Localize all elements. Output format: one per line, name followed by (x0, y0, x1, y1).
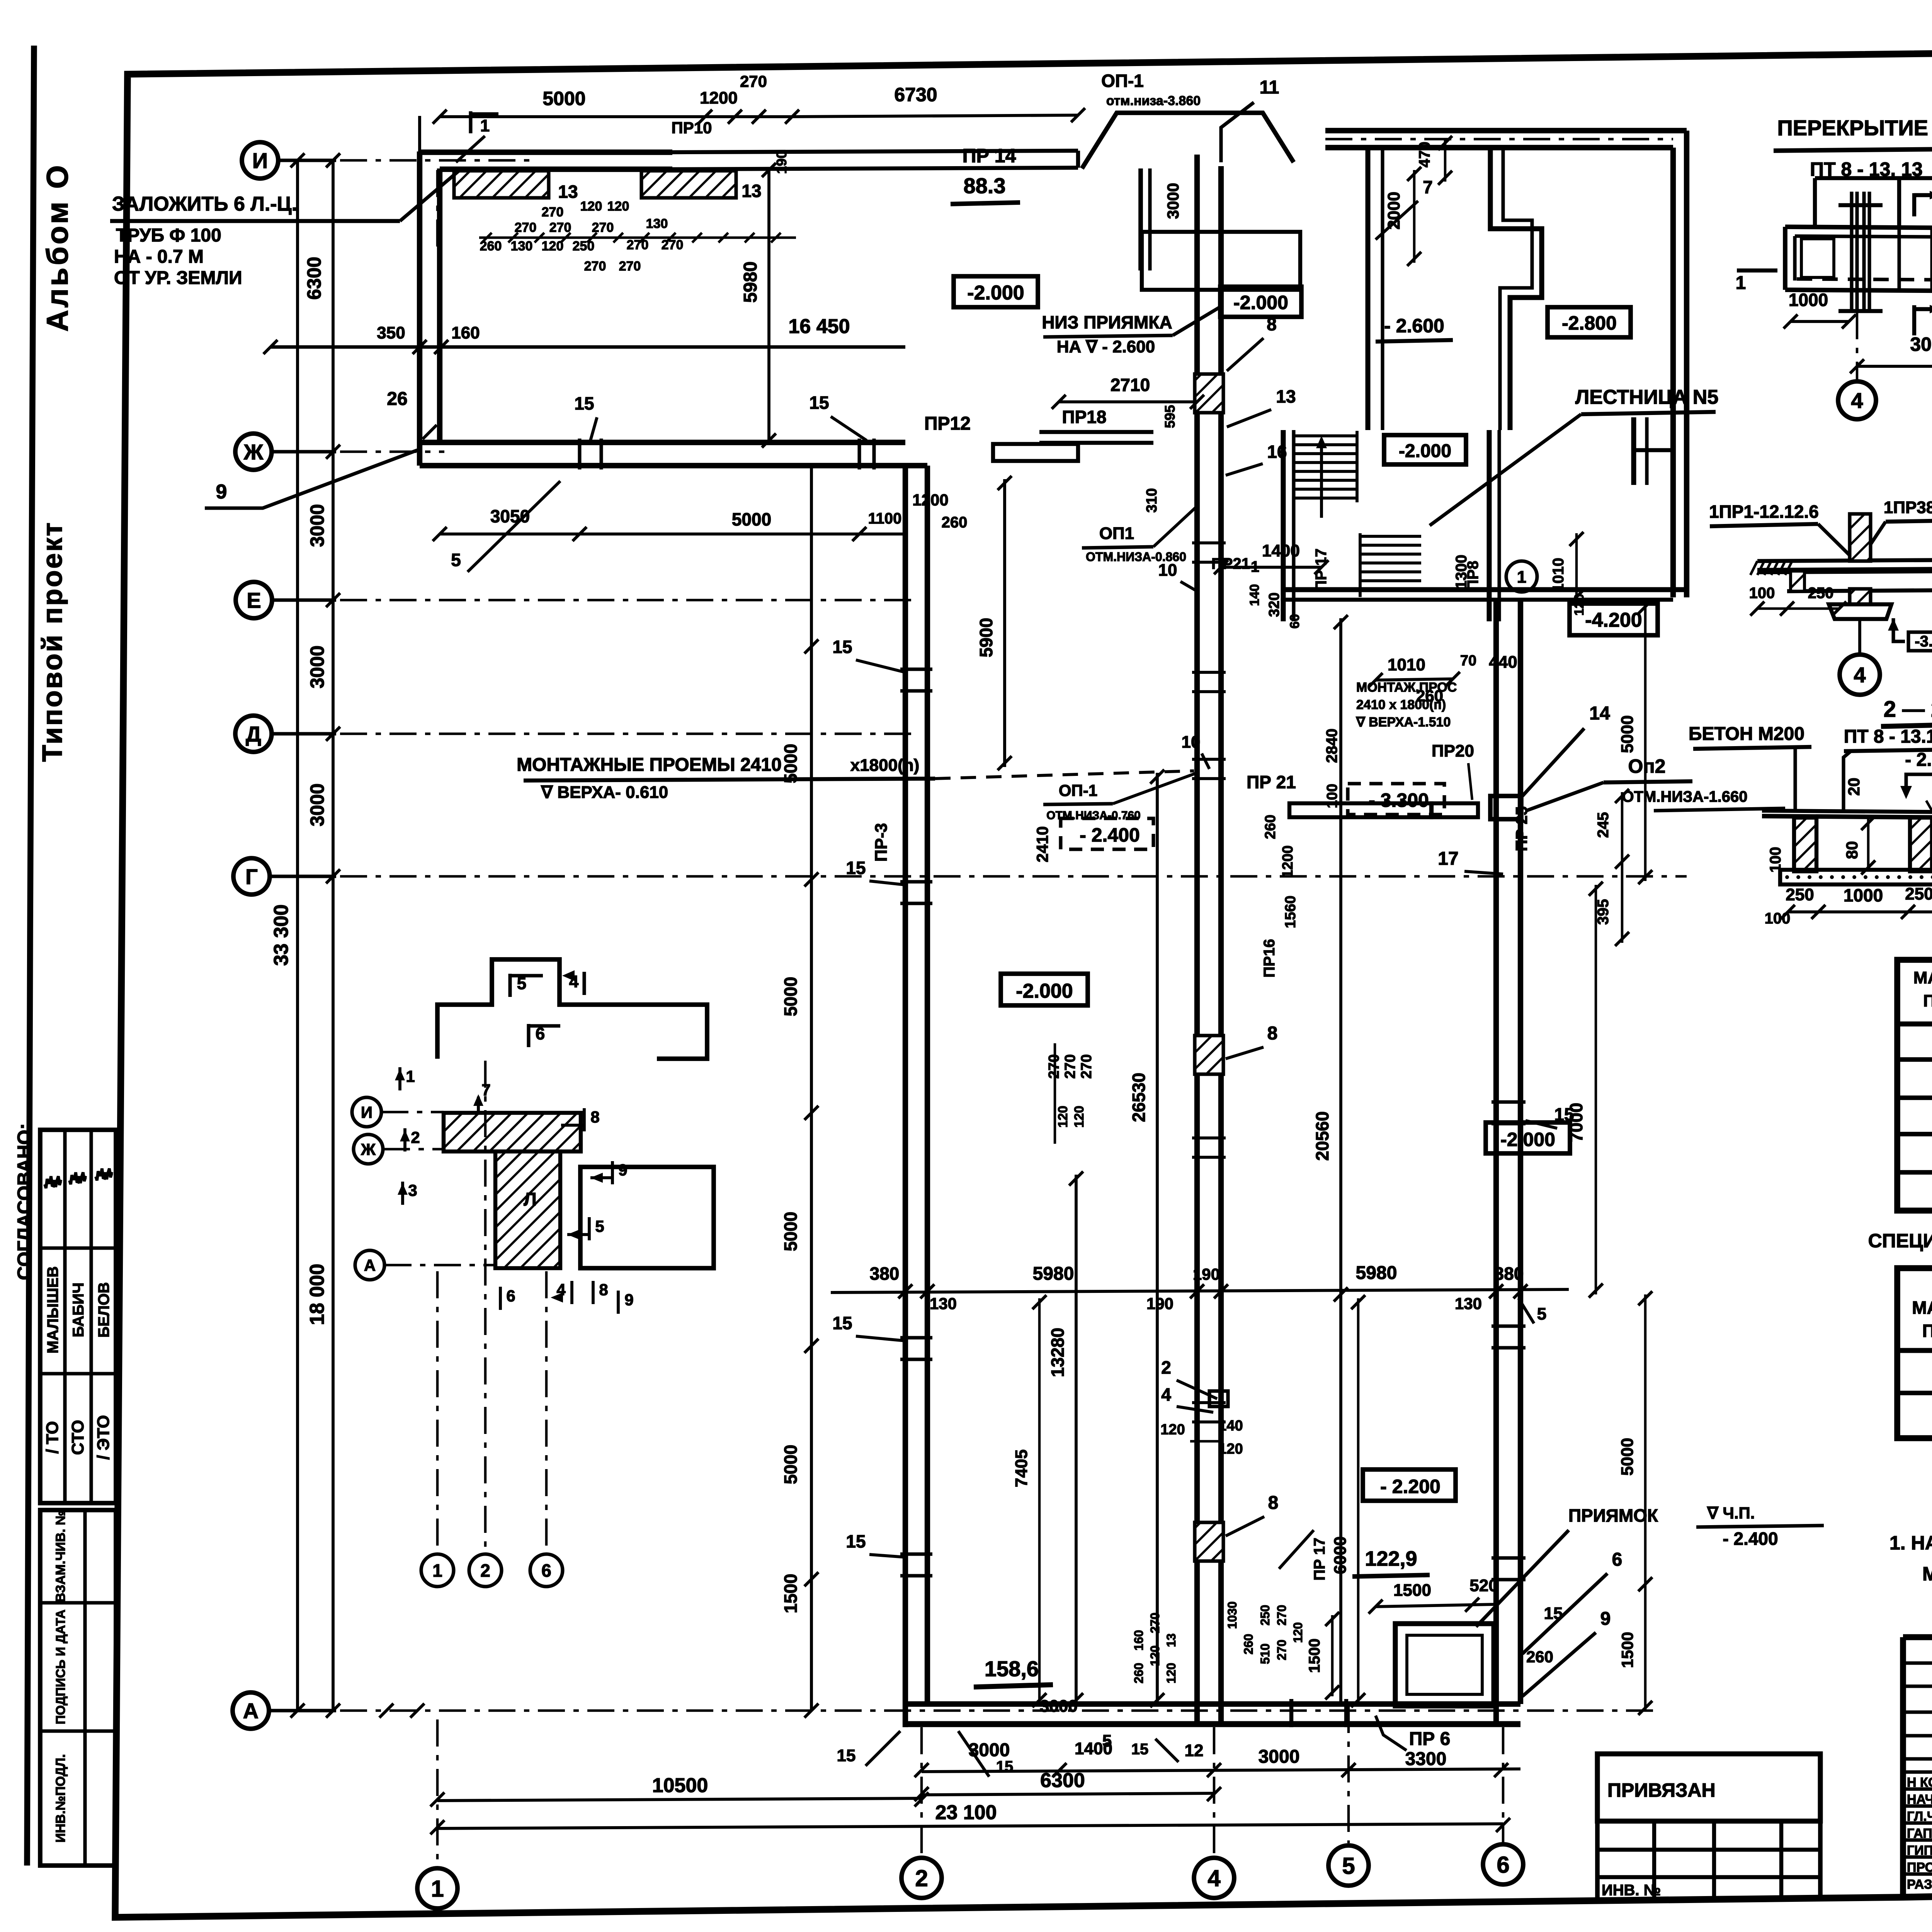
svg-text:5000: 5000 (543, 88, 585, 109)
svg-text:3000: 3000 (1910, 333, 1932, 355)
svg-text:ОТ УР. ЗЕМЛИ: ОТ УР. ЗЕМЛИ (114, 268, 242, 288)
svg-text:270: 270 (1062, 1054, 1078, 1078)
svg-text:6: 6 (506, 1287, 515, 1305)
svg-text:5000: 5000 (1618, 715, 1637, 753)
section 1-1 slab (1757, 559, 1932, 561)
svg-text:15: 15 (809, 393, 829, 413)
detail outline stepped top (437, 959, 707, 1059)
svg-text:5980: 5980 (740, 262, 761, 303)
svg-text:ТРУБ Ф 100: ТРУБ Ф 100 (116, 225, 221, 246)
wall left of upper-right rooms (1366, 148, 1371, 430)
svg-text:270: 270 (662, 238, 684, 252)
left dim chain segments (332, 160, 335, 1711)
beam axis circle 4 (1856, 312, 1859, 380)
svg-text:2840: 2840 (1323, 729, 1340, 763)
svg-text:1500: 1500 (1306, 1639, 1323, 1673)
axis circle 2 bottom (901, 1858, 942, 1898)
svg-text:ПР16: ПР16 (1261, 939, 1278, 978)
svg-text:3000: 3000 (1164, 183, 1182, 219)
svg-text:350: 350 (377, 323, 405, 342)
svg-text:120: 120 (1056, 1106, 1070, 1128)
svg-text:Типовой проект: Типовой проект (37, 521, 68, 762)
axis circle 1 bottom (417, 1868, 457, 1908)
svg-text:1000: 1000 (1789, 290, 1828, 310)
svg-text:250: 250 (1258, 1605, 1272, 1625)
svg-text:- 2.400: - 2.400 (1080, 824, 1140, 846)
axis circle Zh left (235, 434, 272, 470)
section 1-1 left small pier (1791, 571, 1804, 591)
svg-text:ЗАЛОЖИТЬ 6 Л.-Ц.: ЗАЛОЖИТЬ 6 Л.-Ц. (112, 193, 297, 215)
svg-text:ПР 21: ПР 21 (1247, 772, 1296, 792)
svg-text:6: 6 (1612, 1549, 1622, 1570)
beam PR20 (1432, 803, 1478, 817)
opening ticks on V3 (1192, 541, 1226, 544)
svg-text:2410: 2410 (1033, 826, 1051, 862)
dim 20560 rotated (1339, 618, 1342, 1704)
svg-text:130: 130 (511, 239, 533, 253)
svg-text:1000: 1000 (1844, 885, 1883, 905)
svg-text:140: 140 (1247, 584, 1262, 606)
svg-text:ВЗАМ.ЧИВ. №: ВЗАМ.ЧИВ. № (53, 1510, 68, 1602)
svg-text:250: 250 (573, 239, 595, 253)
box minus 4.200 (1570, 604, 1658, 635)
svg-text:260: 260 (1416, 687, 1443, 705)
svg-text:МАРКА: МАРКА (1913, 968, 1932, 987)
svg-text:СТО: СТО (68, 1420, 87, 1455)
title block signature rows (1903, 1770, 1932, 1774)
svg-text:-2.000: -2.000 (1016, 980, 1073, 1002)
svg-text:250: 250 (1786, 885, 1814, 904)
svg-text:130: 130 (646, 216, 668, 231)
bottom dim row 1 (922, 1769, 1520, 1772)
svg-text:13: 13 (1276, 386, 1296, 406)
axis line 1 vertical (436, 1719, 439, 1866)
svg-text:2: 2 (915, 1866, 928, 1891)
svg-text:5000: 5000 (732, 509, 771, 529)
detail T column hatched bar (444, 1113, 581, 1151)
dim 5000 1500 right chain (1644, 1294, 1647, 1711)
svg-text:16 450: 16 450 (788, 315, 850, 338)
svg-text:отм.низа-3.860: отм.низа-3.860 (1106, 94, 1201, 108)
bottom dim 6300 (922, 1793, 1214, 1795)
svg-text:17: 17 (1438, 849, 1458, 869)
svg-text:-2.000: -2.000 (1399, 441, 1451, 461)
beam PR18 lines (1039, 430, 1153, 434)
svg-text:8: 8 (1268, 1493, 1279, 1513)
axis circle 5 bottom (1328, 1845, 1369, 1886)
svg-text:16: 16 (1267, 442, 1287, 462)
svg-text:/ ТО: / ТО (43, 1421, 62, 1454)
svg-text:-2.000: -2.000 (967, 282, 1024, 304)
dim 26530 rotated (1156, 773, 1159, 1704)
stairwell left wall (1281, 430, 1286, 621)
beam PR12 (993, 444, 1078, 461)
svg-text:380: 380 (1494, 1264, 1524, 1284)
svg-text:13280: 13280 (1048, 1328, 1068, 1377)
beam band outline (1785, 227, 1932, 229)
bottom wall cell (1289, 1699, 1293, 1727)
svg-text:70: 70 (1460, 653, 1476, 669)
axis circle A left (233, 1692, 269, 1729)
svg-text:5000: 5000 (781, 1445, 801, 1484)
box minus 2.800 (1548, 307, 1631, 337)
svg-text:5900: 5900 (976, 618, 996, 657)
dim 13280 rotated (1075, 1175, 1078, 1704)
svg-text:158,6: 158,6 (985, 1656, 1039, 1681)
svg-text:270: 270 (549, 220, 571, 235)
svg-text:13: 13 (1164, 1633, 1178, 1647)
svg-text:270: 270 (1275, 1605, 1289, 1625)
svg-text:Д: Д (246, 722, 261, 746)
svg-text:А: А (243, 1699, 259, 1723)
svg-text:9: 9 (618, 1161, 627, 1179)
svg-text:2 — 2: 2 — 2 (1884, 697, 1932, 722)
svg-text:245: 245 (1595, 812, 1612, 838)
svg-text:СОГЛАСОВАНО:: СОГЛАСОВАНО: (14, 1123, 35, 1280)
svg-text:260: 260 (1262, 815, 1279, 839)
box minus 2.000 top left (954, 276, 1038, 307)
detail axis circle 6 (530, 1554, 563, 1587)
svg-text:13: 13 (742, 181, 761, 201)
svg-text:ПРИВЯЗАН: ПРИВЯЗАН (1607, 1779, 1716, 1801)
svg-text:14: 14 (1589, 703, 1610, 724)
svg-text:3000: 3000 (306, 783, 328, 826)
svg-text:6000: 6000 (1331, 1536, 1350, 1574)
svg-text:10500: 10500 (652, 1774, 708, 1797)
stair flight 1 treads (1294, 434, 1357, 437)
svg-text:6730: 6730 (894, 84, 937, 105)
beam plate joints (1897, 228, 1901, 291)
svg-text:ПЕРЕКРЫТИЕ ПОДПОЛЬНОГО КАНАЛ: ПЕРЕКРЫТИЕ ПОДПОЛЬНОГО КАНАЛА (1777, 116, 1932, 140)
svg-text:- 2.400: - 2.400 (1723, 1529, 1778, 1549)
svg-text:МАРКА: МАРКА (1912, 1298, 1932, 1318)
svg-text:7000: 7000 (1566, 1103, 1586, 1142)
beam section mark 2 top (1912, 193, 1916, 216)
svg-text:ПОДПИСЬ И ДАТА: ПОДПИСЬ И ДАТА (53, 1609, 68, 1724)
svg-text:595: 595 (1162, 405, 1178, 428)
svg-text:7405: 7405 (1012, 1449, 1031, 1487)
svg-text:190: 190 (1193, 1265, 1220, 1283)
svg-text:ПР8: ПР8 (1464, 561, 1481, 591)
stair flight 2 treads (1360, 535, 1421, 538)
axis line 4 vertical (1213, 1727, 1216, 1855)
svg-text:И: И (252, 148, 268, 173)
svg-text:1010: 1010 (1388, 655, 1425, 674)
section circle 1 small (1506, 561, 1537, 592)
svg-text:3000: 3000 (1040, 1697, 1078, 1716)
svg-text:470: 470 (1416, 142, 1433, 168)
detail room rectangle (580, 1167, 714, 1268)
wall right block right edge (1670, 148, 1676, 597)
openings on V2 wall (900, 667, 932, 671)
axis circle E left (236, 582, 272, 618)
svg-text:120: 120 (580, 199, 602, 214)
svg-text:6: 6 (1497, 1852, 1509, 1878)
svg-text:8: 8 (599, 1281, 608, 1299)
svg-text:2710: 2710 (1111, 375, 1150, 395)
svg-text:15: 15 (832, 637, 852, 657)
section 2-2 right wall hatched (1910, 818, 1932, 871)
svg-text:15: 15 (996, 1758, 1014, 1775)
axis line A (340, 1709, 1662, 1712)
sidebar inventory table (40, 1510, 116, 1866)
sheet left edge line (27, 46, 34, 1866)
svg-text:ОТМ.НИЗА-1.660: ОТМ.НИЗА-1.660 (1622, 788, 1748, 805)
svg-text:140: 140 (1218, 1418, 1243, 1434)
wall top of right block (1325, 128, 1687, 133)
svg-text:6300: 6300 (303, 257, 325, 299)
svg-text:5: 5 (451, 550, 461, 570)
beam column at axis 4 (1850, 192, 1853, 312)
detail axis circle Zh (354, 1134, 383, 1164)
svg-text:6300: 6300 (1040, 1769, 1085, 1792)
svg-text:270: 270 (1275, 1639, 1289, 1660)
axis circle 6 bottom (1483, 1844, 1523, 1884)
svg-text:12: 12 (1185, 1741, 1204, 1760)
svg-text:/ ЭТО: / ЭТО (94, 1415, 113, 1460)
title block signature grid top (1903, 1661, 1932, 1665)
dashed line montazh proemy (935, 771, 1194, 779)
svg-text:И: И (361, 1103, 372, 1121)
svg-text:320: 320 (1266, 592, 1282, 617)
svg-text:23 100: 23 100 (935, 1801, 997, 1824)
svg-text:Е: Е (247, 588, 261, 612)
svg-text:120: 120 (1291, 1622, 1305, 1643)
axis line 2 vertical (920, 1727, 923, 1855)
svg-text:Альбом О: Альбом О (40, 163, 74, 332)
svg-text:∇ ВЕРХА- 0.610: ∇ ВЕРХА- 0.610 (541, 783, 668, 802)
detail axis circle A (355, 1250, 384, 1280)
svg-text:120: 120 (1218, 1441, 1243, 1457)
svg-text:100: 100 (1767, 847, 1784, 873)
svg-text:60: 60 (1287, 614, 1302, 629)
svg-text:- 2.000: - 2.000 (1905, 750, 1932, 770)
svg-text:Л: Л (524, 1189, 537, 1210)
bottom dim 23100 (437, 1824, 1503, 1828)
svg-text:100: 100 (1324, 784, 1340, 808)
svg-text:122,9: 122,9 (1365, 1547, 1417, 1570)
hatched openings on V3 (1195, 374, 1223, 413)
section 1-1 ground hatch left (1750, 561, 1757, 575)
svg-text:4: 4 (1854, 663, 1866, 687)
svg-text:1500: 1500 (1618, 1632, 1636, 1668)
svg-text:270: 270 (1078, 1054, 1095, 1078)
axis line 6 vertical (1502, 1727, 1505, 1843)
svg-text:1200: 1200 (700, 88, 738, 107)
svg-text:1400: 1400 (1262, 541, 1300, 560)
svg-text:-2.800: -2.800 (1562, 312, 1617, 334)
wall Zh horizontal (420, 440, 905, 445)
axis line G (340, 875, 1687, 878)
svg-text:440: 440 (1489, 653, 1517, 672)
svg-text:ПР12: ПР12 (924, 413, 971, 434)
svg-text:- 2.600: - 2.600 (1384, 315, 1444, 337)
svg-text:520: 520 (1469, 1576, 1498, 1595)
svg-text:НА ∇ - 2.600: НА ∇ - 2.600 (1057, 337, 1155, 356)
svg-text:ПР18: ПР18 (1062, 407, 1107, 427)
detail axis line 6 vertical (545, 1271, 548, 1549)
section 2-2 left wall hatched (1794, 818, 1816, 871)
svg-text:5: 5 (1342, 1853, 1355, 1879)
svg-text:8: 8 (1267, 1023, 1278, 1044)
svg-text:1: 1 (480, 116, 490, 135)
svg-text:ПОЗ.: ПОЗ. (1923, 992, 1932, 1010)
svg-text:260: 260 (942, 514, 968, 531)
svg-text:1. НА ПЕРИОД МОНТАЖА ОБОРУД: 1. НА ПЕРИОД МОНТАЖА ОБОРУДОВАНИЯ ОТМЕТК… (1889, 1532, 1932, 1554)
svg-text:1ПР1-12.12.6: 1ПР1-12.12.6 (1709, 502, 1819, 522)
detail T column hatched stem (495, 1151, 560, 1268)
dim 5980 rotated (767, 170, 770, 440)
section 1-1 column axis 4 (1850, 514, 1871, 561)
section 1-1 axis circle 4 (1840, 655, 1880, 695)
wall right block partition zigzag (1490, 148, 1542, 430)
dash dot upper right (1325, 138, 1673, 141)
svg-text:380: 380 (870, 1264, 900, 1284)
top dim 5000 (440, 115, 705, 118)
svg-text:ПР 17: ПР 17 (1311, 1537, 1328, 1580)
axis line Zh (340, 451, 444, 453)
svg-text:ПР 6: ПР 6 (1409, 1729, 1451, 1749)
svg-text:∇ Ч.П.: ∇ Ч.П. (1707, 1504, 1755, 1522)
svg-text:1: 1 (406, 1067, 415, 1085)
svg-text:80: 80 (1843, 841, 1861, 859)
svg-text:120: 120 (607, 199, 629, 214)
privyazan lower grid (1595, 1821, 1600, 1902)
svg-text:А: А (364, 1256, 376, 1274)
svg-text:Оп2: Оп2 (1628, 755, 1666, 777)
svg-text:БЕЛОВ: БЕЛОВ (95, 1282, 112, 1338)
svg-text:Г: Г (245, 864, 258, 889)
svg-text:250: 250 (1905, 884, 1932, 903)
svg-text:260: 260 (1526, 1648, 1553, 1666)
svg-text:120: 120 (1072, 1106, 1087, 1128)
dim 5900 rotated (1003, 479, 1006, 767)
svg-text:3: 3 (408, 1181, 417, 1199)
axis line 5 vertical (1347, 1706, 1350, 1843)
beam plate outline above (1815, 176, 1932, 180)
svg-text:160: 160 (451, 323, 480, 342)
svg-text:4: 4 (1161, 1384, 1171, 1405)
svg-text:СПЕЦИФИКАЦИЯ ЭЛЕМЕНТОВ ЗАПОЛ: СПЕЦИФИКАЦИЯ ЭЛЕМЕНТОВ ЗАПОЛНЕНИЯ ПРОЕМО… (1868, 1230, 1932, 1252)
box minus 2.000 center big (1001, 974, 1088, 1005)
svg-text:Ж: Ж (243, 440, 264, 464)
axis circle G left (233, 858, 270, 895)
svg-text:270: 270 (542, 205, 564, 219)
spec table 1 grid (1897, 960, 1932, 1211)
svg-text:-2.000: -2.000 (1500, 1129, 1555, 1150)
svg-text:БАБИЧ: БАБИЧ (70, 1282, 87, 1337)
svg-text:ОП-1: ОП-1 (1059, 781, 1097, 799)
svg-text:13: 13 (558, 182, 578, 202)
svg-text:1: 1 (432, 1561, 442, 1581)
svg-text:270: 270 (619, 259, 641, 274)
svg-text:395: 395 (1595, 899, 1612, 925)
svg-text:1500: 1500 (1393, 1581, 1431, 1600)
beam section mark 2 bottom (1912, 305, 1916, 335)
section 2-2 bottom slab concrete (1780, 870, 1932, 884)
svg-text:ЛЕСТНИЦА N5: ЛЕСТНИЦА N5 (1575, 386, 1719, 408)
small rect opening mid (1209, 1391, 1228, 1406)
tick row under top wall (479, 236, 796, 239)
svg-text:ПР 17: ПР 17 (1313, 548, 1330, 591)
svg-text:МОНТАЖНЫХ ПРОЕМОВ ВЫПОЛНИТЬ: МОНТАЖНЫХ ПРОЕМОВ ВЫПОЛНИТЬ - 3.300, - 2… (1922, 1563, 1932, 1585)
dim 7405 rotated (1038, 1298, 1041, 1704)
svg-text:-4.200: -4.200 (1585, 609, 1642, 631)
svg-text:БЕТОН М200: БЕТОН М200 (1689, 724, 1804, 744)
svg-text:130: 130 (1455, 1294, 1482, 1313)
svg-text:120: 120 (1164, 1663, 1178, 1683)
svg-text:7: 7 (1423, 177, 1433, 197)
axis line E (340, 599, 912, 602)
svg-text:190: 190 (774, 151, 789, 174)
bottom dim 10500 (437, 1798, 922, 1801)
svg-text:15: 15 (574, 393, 594, 413)
svg-text:1: 1 (1517, 568, 1526, 587)
svg-text:1200: 1200 (1280, 845, 1296, 878)
wall top room top horizontal (420, 150, 672, 155)
wall central vertical V3 (1194, 155, 1200, 1724)
opening ticks on Zh wall (578, 439, 581, 469)
svg-text:20560: 20560 (1312, 1111, 1332, 1161)
svg-text:10: 10 (1182, 733, 1201, 752)
axis circle I left (242, 142, 278, 179)
flag label 1 top-left room (469, 111, 472, 133)
svg-text:1010: 1010 (1550, 558, 1567, 592)
title block outer (1903, 1634, 1932, 1640)
section 1-1 label minus 3.300 boxed (1908, 632, 1932, 651)
svg-text:88.3: 88.3 (964, 173, 1006, 198)
inner left dim chain 5000s (810, 466, 813, 1711)
dim 6000 rotated (1357, 1298, 1360, 1704)
svg-text:2: 2 (480, 1561, 490, 1581)
svg-text:15: 15 (1544, 1604, 1563, 1623)
svg-text:1500: 1500 (781, 1574, 801, 1613)
svg-text:1030: 1030 (1225, 1601, 1239, 1629)
svg-text:РАЗРАБ.: РАЗРАБ. (1907, 1877, 1932, 1892)
wall hatch strips under top wall (454, 171, 549, 198)
stairwell right wall (1487, 430, 1492, 621)
svg-text:ОП-1: ОП-1 (1101, 71, 1144, 91)
svg-text:1ПР38-15.17.22: 1ПР38-15.17.22 (1884, 498, 1932, 517)
svg-text:ИНВ.№ПОДЛ.: ИНВ.№ПОДЛ. (53, 1754, 68, 1843)
svg-text:120: 120 (542, 239, 564, 253)
axis circle D left (235, 716, 272, 752)
svg-text:ПР-3: ПР-3 (872, 823, 891, 862)
svg-text:120: 120 (1148, 1645, 1162, 1666)
svg-text:9: 9 (1600, 1609, 1611, 1629)
detail axis circle 2 (469, 1554, 502, 1587)
svg-text:4: 4 (1207, 1866, 1221, 1891)
mid dim row 5980 190 5980 (831, 1289, 1569, 1293)
svg-text:250: 250 (1808, 585, 1834, 602)
svg-text:Ж: Ж (361, 1140, 376, 1158)
svg-text:6: 6 (541, 1561, 551, 1581)
left dim chain overall 33300 (296, 160, 299, 1711)
svg-text:НИЗ ПРИЯМКА: НИЗ ПРИЯМКА (1042, 312, 1172, 332)
beam PR10 top (672, 151, 1078, 152)
svg-text:20: 20 (1845, 778, 1863, 796)
detail axis line 2 vertical (484, 1061, 487, 1549)
svg-text:1: 1 (431, 1876, 444, 1902)
svg-text:2: 2 (1161, 1357, 1171, 1378)
top dim 6730 (792, 115, 1078, 117)
axis line D (340, 733, 912, 735)
svg-text:5980: 5980 (1033, 1264, 1074, 1284)
svg-text:- 3.300: - 3.300 (1369, 789, 1429, 811)
wall pair below beam corner (1138, 168, 1143, 270)
svg-text:- 2.200: - 2.200 (1380, 1476, 1440, 1497)
beam section mark 1 left (1737, 269, 1777, 272)
